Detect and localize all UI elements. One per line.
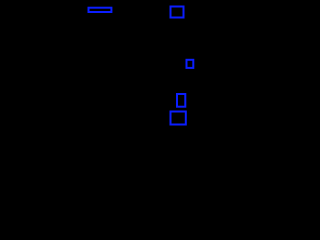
component U4: [171, 112, 186, 125]
resistor R1: [89, 8, 112, 12]
component U2: [187, 60, 194, 68]
component U3: [177, 94, 185, 107]
schematic canvas: [0, 0, 200, 144]
component U1: [171, 7, 184, 18]
